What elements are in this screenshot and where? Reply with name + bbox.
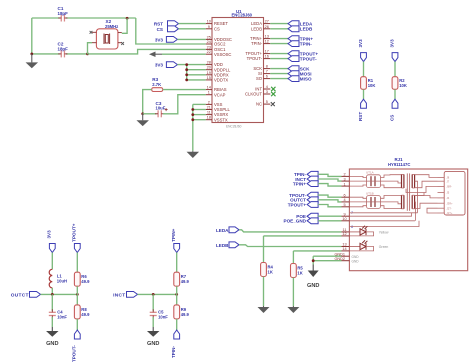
pin 17 TPOUT+ U1 xyxy=(264,53,271,55)
net flag TPOUT+ xyxy=(288,51,299,57)
wire node to R8 xyxy=(76,294,78,305)
svg-text:GND: GND xyxy=(307,283,319,289)
pin 27 LEDA U1 xyxy=(264,23,271,25)
crystal X2 xyxy=(96,29,118,49)
pin 23 OSC1 U1 xyxy=(206,48,212,50)
wire RST to RESET xyxy=(179,23,206,25)
wire T1 out bottom xyxy=(415,181,438,188)
wire VSS rail xyxy=(192,104,194,150)
svg-text:49.9: 49.9 xyxy=(181,279,190,284)
wire CS pin xyxy=(179,28,206,30)
wire 3V3 to VDDOSC xyxy=(177,38,205,40)
pin 18 VSSTX U1 xyxy=(206,119,212,121)
pin 2 RJ1 xyxy=(342,175,350,177)
svg-text:OSC2: OSC2 xyxy=(214,42,226,47)
svg-text:TPOUT+: TPOUT+ xyxy=(288,202,307,207)
ground below R5 xyxy=(287,306,299,313)
wire OUTCT row xyxy=(41,293,78,295)
svg-text:2.7K: 2.7K xyxy=(152,82,161,87)
LED Green xyxy=(349,246,360,248)
resistor R7 xyxy=(174,272,180,286)
svg-text:1K: 1K xyxy=(297,270,302,275)
net flag CS xyxy=(392,99,398,108)
wire choke2 bottom in xyxy=(349,206,366,207)
wire C2 row to OSC1 xyxy=(88,49,206,54)
wire R8 to flag xyxy=(76,319,78,330)
capacitor C3 xyxy=(158,110,161,117)
svg-text:18: 18 xyxy=(207,116,211,120)
svg-text:26: 26 xyxy=(265,25,269,29)
wire choke2 bottom out xyxy=(381,206,402,209)
wire POE to pin 9 xyxy=(318,215,341,217)
wire R5 to ground xyxy=(292,278,294,307)
svg-text:VSSOSC: VSSOSC xyxy=(214,52,231,57)
wire TPIN+ xyxy=(270,38,288,40)
pin 16 TPOUT- U1 xyxy=(264,58,271,60)
svg-text:GND: GND xyxy=(147,341,159,347)
wire 3V3 to R2 xyxy=(394,62,396,77)
junction VDDRX xyxy=(185,73,188,76)
svg-text:10uF: 10uF xyxy=(156,106,166,111)
inductor L1 xyxy=(49,269,52,288)
svg-text:VSSTX: VSSTX xyxy=(214,117,228,122)
svg-text:Green: Green xyxy=(379,245,389,249)
wire C3 left xyxy=(143,113,157,115)
wire T2 out top xyxy=(415,193,424,196)
svg-text:GND: GND xyxy=(352,259,360,263)
net flag RST xyxy=(361,99,367,108)
wire VDDPLL xyxy=(187,69,206,71)
wire choke1 bottom in xyxy=(349,185,366,186)
pin 3 CLKOUT U1 xyxy=(264,93,271,95)
svg-text:7: 7 xyxy=(266,70,268,74)
svg-text:49.9: 49.9 xyxy=(81,279,90,284)
svg-text:10uH: 10uH xyxy=(57,279,67,284)
wire choke1 top out xyxy=(381,175,402,178)
ground below U1 xyxy=(187,151,200,158)
svg-text:11: 11 xyxy=(207,111,211,115)
pin 2 VSS U1 xyxy=(206,103,212,105)
wire pin10 internal xyxy=(349,220,415,222)
svg-text:POE_GND: POE_GND xyxy=(284,219,307,224)
svg-text:LEDA: LEDA xyxy=(216,228,229,233)
pin 2 no-connect X2 xyxy=(90,31,93,34)
pin 20 VDDPLL U1 xyxy=(206,69,212,71)
svg-text:GND: GND xyxy=(352,255,360,259)
connector RJ1 HY911147C body xyxy=(349,169,467,271)
wire GND2 xyxy=(313,260,341,262)
wire R4 to ground xyxy=(263,277,265,307)
wire C1 top rail xyxy=(32,17,60,19)
svg-text:TPIN-: TPIN- xyxy=(300,41,312,46)
wire T2 aux row7 xyxy=(427,208,438,213)
transformer windings xyxy=(402,195,415,209)
pin 25 VDDOSC U1 xyxy=(206,38,212,40)
wire TPIN+ to pin 1 xyxy=(318,184,341,187)
svg-text:27: 27 xyxy=(265,20,269,24)
pin 5 NC U1 xyxy=(264,103,271,105)
svg-text:13: 13 xyxy=(265,35,269,39)
svg-text:GND: GND xyxy=(46,341,58,347)
capacitor C4 xyxy=(49,312,56,315)
wire LEDB to pin 13 xyxy=(239,245,342,247)
svg-text:CS: CS xyxy=(157,27,163,32)
no-connect NC xyxy=(271,102,275,106)
svg-text:8: 8 xyxy=(351,225,353,229)
wire L1 to node xyxy=(51,288,53,295)
wire choke2 top in xyxy=(349,197,366,198)
svg-text:1K: 1K xyxy=(268,269,273,274)
svg-text:TPOUT-: TPOUT- xyxy=(72,345,77,362)
wire choke1 bottom out xyxy=(381,185,402,188)
svg-text:17: 17 xyxy=(265,50,269,54)
svg-text:3: 3 xyxy=(343,177,345,181)
wire T1 center tap right xyxy=(415,181,418,213)
wire 3V3 to L1 xyxy=(51,253,53,270)
resistor R1 xyxy=(361,77,367,90)
wire choke2 top out xyxy=(381,196,402,199)
svg-text:5: 5 xyxy=(343,203,345,207)
LED Yellow xyxy=(349,231,360,233)
ground below R4 xyxy=(258,306,270,313)
pin 13 TPIN+ U1 xyxy=(264,38,271,40)
pin 9 RJ1 xyxy=(342,215,350,217)
svg-text:TPIN-: TPIN- xyxy=(171,346,176,358)
svg-text:24: 24 xyxy=(207,40,211,44)
wire TPIN- to pin 2 xyxy=(318,174,341,176)
wire crystal to top rail xyxy=(122,18,127,33)
svg-text:3V3: 3V3 xyxy=(47,230,52,239)
wire TPOUT+ xyxy=(270,53,288,55)
junction C5 xyxy=(152,293,155,296)
pin 13 RJ1 xyxy=(342,246,350,248)
wire to R7 xyxy=(176,253,178,273)
svg-text:18pF: 18pF xyxy=(58,11,69,16)
wire C5 stub xyxy=(152,294,154,310)
svg-text:J6R-: J6R- xyxy=(447,185,453,189)
net flag TPIN- xyxy=(288,41,299,47)
svg-text:9: 9 xyxy=(343,212,345,216)
pin 9 CS U1 xyxy=(206,28,212,30)
svg-text:3V3: 3V3 xyxy=(155,63,164,68)
junction VSSTX xyxy=(191,118,194,121)
resistor R5 xyxy=(291,264,297,278)
wire choke1 top in xyxy=(349,176,366,177)
wire R9 to flag xyxy=(176,319,178,330)
svg-text:18pF: 18pF xyxy=(58,47,69,52)
junction L1 C4 xyxy=(51,293,54,296)
wire T2 to row5 xyxy=(415,196,438,198)
junction R6 R8 xyxy=(76,293,79,296)
pin 24 OSC2 U1 xyxy=(206,43,212,45)
net flag TPIN+ xyxy=(288,36,299,42)
ground below C4 xyxy=(46,327,59,337)
wire C5 to ground xyxy=(152,317,154,327)
svg-text:10K: 10K xyxy=(399,83,407,88)
svg-text:LEDB: LEDB xyxy=(216,243,229,248)
net flag TPOUT- bottom xyxy=(74,330,80,339)
svg-text:3: 3 xyxy=(266,90,268,94)
svg-text:25: 25 xyxy=(207,35,211,39)
capacitor C5 xyxy=(150,312,157,315)
wire gnd drop xyxy=(312,256,314,264)
svg-text:LEDB: LEDB xyxy=(300,27,313,32)
svg-text:1: 1 xyxy=(343,182,345,186)
pin 12 RJ1 xyxy=(342,235,350,237)
wire T2 out bottom xyxy=(415,203,438,208)
wire LEDB xyxy=(270,28,288,30)
svg-text:2: 2 xyxy=(208,100,210,104)
wire R1 to RST xyxy=(363,89,365,99)
junction VSSPLL xyxy=(191,108,194,111)
svg-text:5: 5 xyxy=(266,100,268,104)
resistor R3 xyxy=(152,88,163,92)
ground GND net xyxy=(308,265,319,278)
wire LEDA to pin 11 xyxy=(239,230,342,232)
svg-text:LEDB: LEDB xyxy=(251,26,262,31)
junction C3 ground node xyxy=(141,112,144,115)
pin 6 RJ1 xyxy=(342,196,350,198)
wire MISO xyxy=(270,78,288,80)
junction C2 crystal xyxy=(86,53,89,56)
pin 15 VDDTX U1 xyxy=(206,79,212,81)
svg-text:VCAP: VCAP xyxy=(214,92,226,97)
wire C4 to ground xyxy=(51,317,53,327)
resistor R9 xyxy=(174,305,180,319)
svg-text:1: 1 xyxy=(208,91,210,95)
wire crystal pin1 to C2 node xyxy=(88,43,93,54)
junction VDD xyxy=(185,63,188,66)
wire VSSTX xyxy=(193,119,206,121)
wire to R6 xyxy=(76,253,78,273)
ground below C3 xyxy=(136,114,149,126)
svg-text:ENC28J60: ENC28J60 xyxy=(226,125,242,129)
svg-text:19: 19 xyxy=(207,71,211,75)
svg-text:10: 10 xyxy=(207,20,211,24)
pin 14 RJ1 xyxy=(342,250,350,252)
ground below C5 xyxy=(147,327,160,337)
wire VDDRX xyxy=(187,74,206,76)
svg-text:8: 8 xyxy=(266,65,268,69)
pin 4 RJ1 xyxy=(342,201,350,203)
wire C2 row xyxy=(32,53,60,55)
net flag SCK xyxy=(288,66,299,72)
svg-text:10nF: 10nF xyxy=(57,314,67,319)
wire R3 to RBIAS xyxy=(163,89,206,91)
svg-text:12: 12 xyxy=(265,40,269,44)
svg-text:J3R+: J3R+ xyxy=(447,201,454,205)
svg-text:TPIN+: TPIN+ xyxy=(293,181,306,186)
wire INCT to pin 3 xyxy=(318,179,341,181)
svg-text:9: 9 xyxy=(208,25,210,29)
svg-text:3V3: 3V3 xyxy=(389,39,394,48)
junction GND2 xyxy=(312,259,315,262)
resistor R4 xyxy=(261,263,267,277)
wire TPIN- xyxy=(270,43,288,45)
pin 28 VDD U1 xyxy=(206,64,212,66)
pin 11 RJ1 xyxy=(342,231,350,233)
wire pin9 internal xyxy=(349,213,411,216)
pin 12 TPIN- U1 xyxy=(264,43,271,45)
svg-text:3V3: 3V3 xyxy=(155,37,164,42)
svg-text:10: 10 xyxy=(342,217,346,221)
wire center tap2 xyxy=(349,202,401,204)
wire pin7 termination xyxy=(349,212,417,214)
svg-text:UT1A: UT1A xyxy=(366,171,374,175)
transformer windings xyxy=(402,174,415,188)
connector jack pins xyxy=(444,171,465,215)
pin 1 VCAP U1 xyxy=(206,94,212,96)
svg-text:ENC28J60: ENC28J60 xyxy=(232,13,253,18)
net flag LEDB xyxy=(288,26,299,32)
svg-text:TPOUT-: TPOUT- xyxy=(300,56,317,61)
wire node to R9 xyxy=(176,294,178,305)
wire VDD rail vertical xyxy=(186,65,188,80)
svg-text:4: 4 xyxy=(266,85,268,89)
svg-text:6: 6 xyxy=(266,75,268,79)
no-connect INT xyxy=(271,87,275,91)
resistor R8 xyxy=(74,305,80,319)
resistor R6 xyxy=(74,272,80,286)
svg-text:CS: CS xyxy=(214,26,220,31)
wire pin 12 to R4 xyxy=(264,235,342,237)
pin 6 SO U1 xyxy=(264,78,271,80)
pin 4 INT U1 xyxy=(264,88,271,90)
capacitor C2 xyxy=(61,50,64,57)
pin 21 VSSPLL U1 xyxy=(206,109,212,111)
svg-text:MISO: MISO xyxy=(300,76,312,81)
svg-text:49.9: 49.9 xyxy=(181,312,190,317)
svg-text:12: 12 xyxy=(342,232,346,236)
svg-text:TPOUT-: TPOUT- xyxy=(247,56,263,61)
wire left ground rail xyxy=(31,18,33,54)
svg-text:RST: RST xyxy=(358,112,363,121)
wire R7 to node xyxy=(176,286,178,294)
junction ground rail xyxy=(30,53,33,56)
net flag TPIN- bottom xyxy=(174,330,180,339)
svg-text:6: 6 xyxy=(343,193,345,197)
svg-text:SO: SO xyxy=(256,76,263,81)
pin 3 RJ1 xyxy=(342,180,350,182)
transformer core xyxy=(407,173,409,210)
wire VDDTX xyxy=(187,79,206,81)
wire R6 to node xyxy=(76,286,78,294)
junction VDDTX xyxy=(185,79,188,82)
wire TPOUT- xyxy=(270,58,288,60)
svg-text:15: 15 xyxy=(207,76,211,80)
pin 7 SI U1 xyxy=(264,73,271,75)
wire C4 stub xyxy=(51,294,53,310)
pin 1 RJ1 xyxy=(342,185,350,187)
svg-text:INCT: INCT xyxy=(113,292,125,298)
net flag LEDA xyxy=(288,21,299,27)
wire SCK xyxy=(270,68,288,70)
pin 4 no-connect X2 xyxy=(121,42,124,45)
wire pin 14 to R5 xyxy=(293,250,341,252)
pin 22 VSSOSC U1 xyxy=(206,53,212,55)
svg-text:J2T-: J2T- xyxy=(447,206,452,210)
svg-text:25MHz: 25MHz xyxy=(105,24,118,29)
ground VSSOSC xyxy=(149,51,162,57)
net flag TPOUT- xyxy=(288,56,299,62)
svg-text:NC: NC xyxy=(256,102,262,107)
net flag MISO xyxy=(288,76,299,82)
wire T1 out top xyxy=(415,175,438,178)
wire TPOUT+ to pin 5 xyxy=(318,205,341,207)
pin 5 RJ1 xyxy=(342,206,350,208)
svg-text:20: 20 xyxy=(207,66,211,70)
svg-text:UT1B: UT1B xyxy=(366,191,374,195)
pin GND1 RJ1 xyxy=(342,255,350,257)
net flag MOSI xyxy=(288,71,299,77)
svg-text:16: 16 xyxy=(265,55,269,59)
wire VSSRX xyxy=(193,114,206,116)
junction crystal top xyxy=(126,17,129,20)
wire TPOUT- to pin 6 xyxy=(318,195,341,197)
svg-text:J1T+: J1T+ xyxy=(447,211,453,215)
svg-text:HY911147C: HY911147C xyxy=(388,162,410,167)
junction VSSRX xyxy=(191,113,194,116)
svg-text:3V3: 3V3 xyxy=(358,39,363,48)
ground xyxy=(26,54,39,68)
svg-text:VDDTX: VDDTX xyxy=(214,78,228,83)
junction VDDPLL xyxy=(185,68,188,71)
pin 10 RJ1 xyxy=(342,220,350,222)
svg-text:14: 14 xyxy=(207,86,211,90)
wire 3V3 to R1 xyxy=(363,62,365,77)
op-amp U1 ENC28J60 body xyxy=(212,18,264,123)
svg-text:13: 13 xyxy=(342,243,346,247)
wire POE_GND to pin 10 xyxy=(318,220,341,222)
wire pin8 termination xyxy=(349,221,419,227)
wire OSC2 drop xyxy=(136,18,206,44)
pin 26 LEDB U1 xyxy=(264,28,271,30)
wire T2 center tap right xyxy=(414,202,417,221)
pin 19 VDDRX U1 xyxy=(206,74,212,76)
svg-text:TPIN+: TPIN+ xyxy=(171,228,176,241)
transformer choke UT1A xyxy=(367,175,381,188)
svg-text:22: 22 xyxy=(207,50,211,54)
junction R7 R9 xyxy=(175,293,178,296)
svg-text:OUTCT: OUTCT xyxy=(11,292,29,298)
wire OUTCT to pin 4 xyxy=(318,200,341,202)
wire R3 left leg xyxy=(143,90,152,114)
svg-text:10nF: 10nF xyxy=(158,314,168,319)
capacitor C1 xyxy=(61,15,64,22)
svg-text:2: 2 xyxy=(343,173,345,177)
pin 10 RESET U1 xyxy=(206,23,212,25)
svg-text:23: 23 xyxy=(207,45,211,49)
wire VSSOSC xyxy=(162,53,206,55)
transformer choke UT1B xyxy=(367,196,381,209)
svg-text:28: 28 xyxy=(207,61,211,65)
wire VSSPLL xyxy=(193,109,206,111)
pin 14 RBIAS U1 xyxy=(206,89,212,91)
pin 8 SCK U1 xyxy=(264,68,271,70)
svg-text:TPIN-: TPIN- xyxy=(251,41,263,46)
svg-text:14: 14 xyxy=(342,247,346,251)
svg-text:49.9: 49.9 xyxy=(81,312,90,317)
wire LEDA xyxy=(270,23,288,25)
resistor R2 xyxy=(392,77,398,90)
svg-text:21: 21 xyxy=(207,106,211,110)
pin 11 VSSRX U1 xyxy=(206,114,212,116)
wire R2 to CS xyxy=(394,89,396,99)
wire INCT row xyxy=(138,293,177,295)
svg-text:CLKOUT: CLKOUT xyxy=(245,92,262,97)
wire GND1 xyxy=(313,255,341,257)
wire 3V3 to VDD xyxy=(177,64,205,66)
